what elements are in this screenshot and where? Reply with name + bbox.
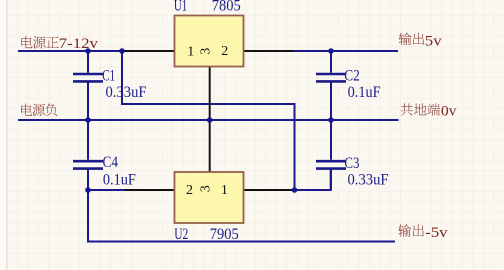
regulator U1 pin 2 lead (243, 50, 294, 52)
svg-text:2: 2 (186, 183, 193, 198)
sheet border line (6, 0, 8, 270)
net label: 输出5v (399, 33, 442, 50)
svg-text:C4: C4 (103, 154, 119, 171)
wire: +5v output net (top right) (294, 50, 399, 52)
junction dot: C2 top / +5v output (328, 48, 334, 54)
svg-text:3: 3 (199, 48, 214, 55)
junction dot: U1 pin3 / U2 pin3 / ground (207, 117, 213, 123)
svg-text:-5v: -5v (425, 225, 448, 241)
svg-text:C2: C2 (344, 67, 360, 84)
net label: 电源负 (21, 104, 57, 117)
svg-text:0.1uF: 0.1uF (348, 84, 381, 101)
svg-text:3: 3 (199, 185, 214, 192)
net label: 输出-5v (398, 224, 448, 241)
svg-text:5v: 5v (425, 33, 442, 49)
regulator U2 pin 2 lead (125, 189, 176, 191)
junction dot: C1 bottom / C4 top / ground (85, 117, 91, 123)
svg-text:7805: 7805 (212, 0, 241, 14)
wire: C4/U2 pin2 junction to -5v output (down then right) (88, 190, 395, 242)
capacitor C2 (316, 51, 346, 120)
capacitor C3 (316, 120, 346, 190)
svg-text:0.1uF: 0.1uF (103, 172, 136, 189)
svg-text:7905: 7905 (210, 226, 239, 243)
svg-text:2: 2 (221, 44, 228, 59)
svg-text:1: 1 (187, 44, 194, 59)
junction dot: C1 top / positive input (85, 48, 91, 54)
wire: ground net (horizontal middle) (18, 119, 399, 121)
svg-text:0v: 0v (441, 104, 457, 120)
svg-text:C3: C3 (344, 155, 359, 172)
junction dot: C4 bottom / U2 pin2 (85, 187, 91, 193)
junction dot: branch to U2 pin1 on positive input (119, 48, 125, 54)
op-amp U1 body (7805 regulator) (175, 16, 244, 67)
svg-text:1: 1 (221, 183, 228, 198)
junction dot: U2 pin1 / C3 bottom (292, 187, 298, 193)
svg-text:U2: U2 (174, 226, 188, 243)
svg-text:0.33uF: 0.33uF (348, 172, 389, 189)
regulator U1 pin 1 lead (122, 50, 175, 52)
svg-text:U1: U1 (174, 0, 187, 14)
regulator U2 pin 1 lead (243, 189, 295, 191)
wire: positive input net (top left) (18, 50, 122, 52)
svg-text:0.33uF: 0.33uF (106, 84, 147, 101)
svg-text:7-12v: 7-12v (59, 36, 99, 52)
wire: input-positive to U2 pin1 (down, across, down) (122, 51, 295, 190)
capacitor C4 (73, 120, 103, 190)
wire: junction to U2 pin2 (88, 189, 126, 191)
net label: 电源正7-12v (21, 36, 98, 52)
wire: U2 pin1 junction to C3 bottom (295, 169, 331, 190)
capacitor C1 (73, 51, 103, 120)
regulator U2 pin 3 lead (209, 120, 211, 172)
op-amp U2 body (7905 regulator) (175, 172, 244, 223)
net label: 共地端0v (401, 103, 457, 119)
junction dot: C2 bottom / C3 top / ground (328, 117, 334, 123)
regulator U1 pin 3 lead (209, 67, 211, 121)
svg-text:C1: C1 (102, 67, 115, 84)
